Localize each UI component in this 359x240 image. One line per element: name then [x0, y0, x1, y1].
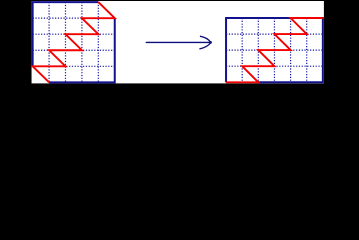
white figure area	[32, 1, 324, 83]
right grid dotted horizontal line v1	[226, 33, 323, 35]
left grid dotted vertical line x2	[64, 2, 66, 82]
left grid dotted horizontal line y3	[33, 49, 115, 51]
left grid dotted vertical line x3	[81, 2, 83, 82]
left grid dotted horizontal line y4	[33, 65, 115, 67]
arrow upper barb	[200, 36, 211, 42]
right grid dotted vertical line u5	[306, 18, 308, 82]
right grid dotted vertical line u1	[241, 18, 243, 82]
left red zigzag path	[33, 2, 115, 82]
right grid dotted horizontal line v3	[226, 65, 323, 67]
right grid dotted vertical line u4	[290, 18, 292, 82]
right grid dotted vertical line u3	[273, 18, 275, 82]
arrow tip dot	[209, 41, 212, 44]
left grid left and top border	[33, 2, 99, 66]
left grid dotted vertical line x1	[48, 2, 50, 82]
arrow lower barb	[199, 43, 210, 49]
left grid dotted horizontal line y1	[33, 17, 115, 19]
left grid dotted vertical line x4	[97, 2, 99, 82]
right grid bottom blue part and right border	[258, 17, 323, 82]
left grid bottom and right border	[49, 18, 115, 82]
right red zigzag path	[226, 18, 323, 82]
arrow shaft	[146, 41, 211, 43]
right grid left and top border blue part	[226, 18, 291, 82]
right grid dotted vertical line u2	[257, 18, 259, 82]
right grid dotted horizontal line v2	[226, 49, 323, 51]
left grid dotted horizontal line y2	[33, 33, 115, 35]
